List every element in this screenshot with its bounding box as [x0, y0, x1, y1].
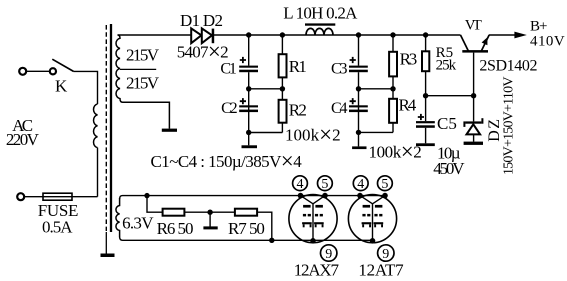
- svg-text:R1: R1: [289, 57, 307, 76]
- svg-text:C4: C4: [331, 100, 348, 117]
- svg-text:5: 5: [321, 177, 328, 192]
- svg-text:100k×2: 100k×2: [285, 122, 341, 147]
- svg-text:C3: C3: [331, 60, 348, 77]
- svg-text:215V: 215V: [126, 73, 160, 92]
- svg-text:R3: R3: [400, 49, 418, 68]
- svg-text:R4: R4: [399, 96, 417, 115]
- svg-text:B+: B+: [530, 18, 548, 34]
- svg-text:6.3V: 6.3V: [122, 214, 154, 233]
- svg-text:220V: 220V: [6, 130, 40, 149]
- svg-text:12AT7: 12AT7: [358, 260, 404, 279]
- svg-text:0.5A: 0.5A: [42, 217, 73, 236]
- svg-text:4: 4: [297, 177, 304, 192]
- svg-text:410V: 410V: [530, 34, 565, 50]
- svg-text:L 10H 0.2A: L 10H 0.2A: [283, 4, 358, 23]
- svg-text:12AX7: 12AX7: [294, 260, 340, 279]
- svg-text:5: 5: [381, 177, 388, 192]
- svg-text:R6 50: R6 50: [157, 219, 194, 238]
- svg-text:C2: C2: [221, 100, 238, 117]
- svg-text:R7 50: R7 50: [228, 219, 265, 238]
- svg-text:2SD1402: 2SD1402: [479, 57, 537, 74]
- svg-text:450V: 450V: [433, 159, 465, 178]
- svg-text:25k: 25k: [436, 58, 457, 74]
- svg-text:C1~C4 : 150µ/385V×4: C1~C4 : 150µ/385V×4: [151, 148, 303, 173]
- svg-text:C5: C5: [437, 114, 457, 133]
- svg-text:4: 4: [357, 177, 364, 192]
- svg-text:215V: 215V: [126, 46, 160, 65]
- svg-text:D1 D2: D1 D2: [180, 11, 223, 30]
- svg-text:K: K: [55, 77, 68, 96]
- svg-text:150V+150V+110V: 150V+150V+110V: [501, 77, 516, 176]
- svg-text:100k×2: 100k×2: [369, 139, 422, 164]
- svg-text:R2: R2: [289, 100, 307, 119]
- svg-text:C1: C1: [220, 60, 237, 77]
- svg-text:VT: VT: [465, 18, 482, 34]
